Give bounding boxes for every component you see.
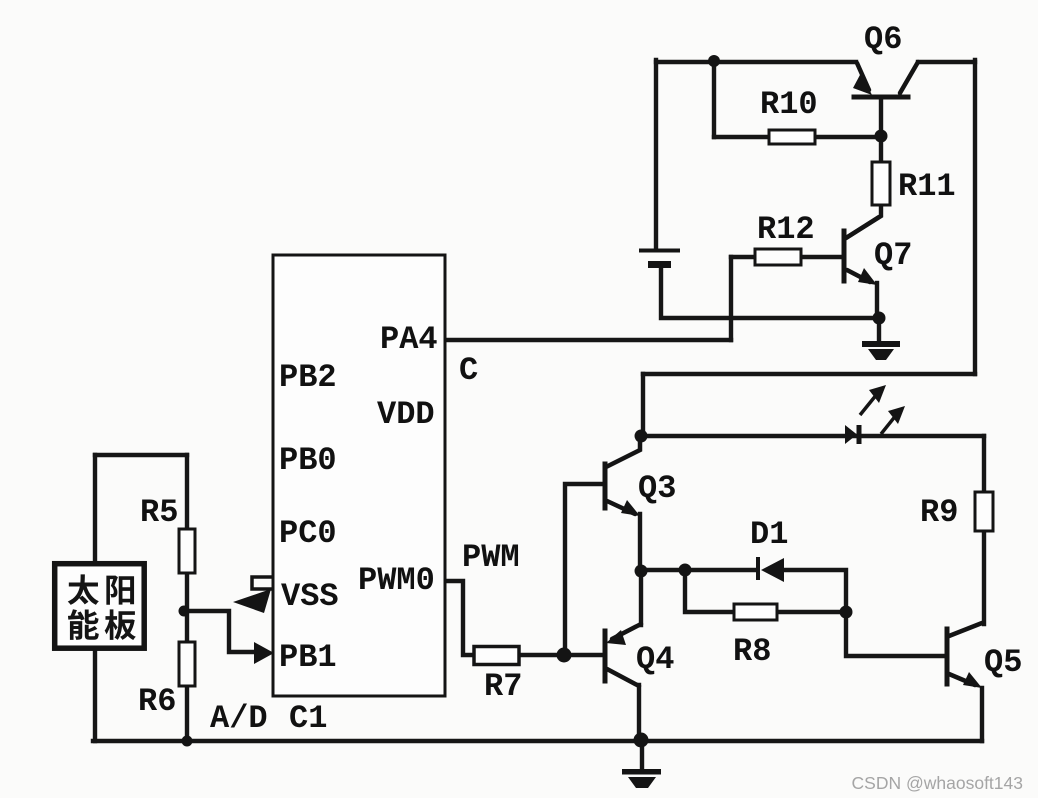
wire R12 base lead to Q7 [801,255,842,259]
wire Q4 emitter trunk [639,571,643,625]
solar panel box [55,564,145,649]
transistor Q3 collector lead [606,436,640,467]
transistor Q5 collector lead [949,623,982,636]
node J10 R5/R6 divider tap [179,606,190,617]
wire Q7 ground stub [877,318,881,342]
diode D1 cathode bar [756,557,760,580]
transistor Q4 emitter arrow (into bar) [606,630,626,645]
resistor R6 [179,642,195,686]
node J3 [635,430,648,443]
resistor R5 [179,529,195,573]
svg-text:PB0: PB0 [279,442,337,479]
svg-text:R6: R6 [138,683,176,720]
node J4 Q7 emitter/ground [873,312,886,325]
svg-text:Q4: Q4 [636,641,674,678]
wire battery negative to ground rail [661,267,879,318]
svg-text:PWM: PWM [462,539,520,576]
wire R8 right lead [777,610,846,614]
transistor Q3 emitter lead [607,501,635,514]
wire Q4 ground stub [640,741,644,769]
svg-text:CSDN @whaosoft143: CSDN @whaosoft143 [852,773,1023,793]
wire R5 top lead [185,455,189,529]
transistor Q7 emitter arrow [858,268,877,285]
wire Q7 emitter drop [875,283,879,318]
wire Q3 base riser [565,484,602,655]
svg-text:PWM0: PWM0 [358,562,435,599]
svg-text:R5: R5 [140,494,178,531]
node J5 R7/Q3/Q4 bases [557,648,572,663]
wire LED row [641,434,984,438]
svg-text:C: C [459,352,478,389]
wire Q5 emitter drop [980,688,984,741]
LED D2 triangle [845,425,857,444]
wire R7 right lead [519,653,602,657]
svg-text:PA4: PA4 [380,321,438,358]
battery B1 plate short [648,261,671,268]
resistor R10 [769,130,815,144]
svg-text:R8: R8 [733,633,771,670]
wire R9 bottom lead [982,531,986,624]
wire solar loop top [95,453,187,457]
transistor Q4 collector lead [607,669,639,686]
transistor Q3 emitter arrow [621,500,640,516]
transistor Q5 base bar [945,629,950,684]
node J11 divider bottom on rail [182,736,193,747]
svg-text:Q6: Q6 [864,21,902,58]
svg-text:R10: R10 [760,86,818,123]
wire Q3 emitter drop [638,514,642,571]
svg-text:R11: R11 [898,168,956,205]
resistor R8 [734,604,777,620]
svg-text:PB2: PB2 [279,359,337,396]
svg-text:R9: R9 [920,494,958,531]
wire node J1 drop to R10 [712,60,716,137]
transistor Q6 collector lead [900,62,918,93]
wire R12 left lead [731,255,755,259]
resistor R7 [474,647,519,665]
ground symbol at Q4 [622,769,661,788]
transistor Q3 base bar [603,464,608,508]
svg-text:D1: D1 [750,516,788,553]
wire R6 top lead [185,611,189,642]
wire battery positive drop [654,60,658,249]
wire R6 bottom lead [185,686,189,741]
wire solar left lower [93,649,97,741]
solar panel char 板 [105,609,136,640]
node J2 [875,130,888,143]
svg-text:Q3: Q3 [638,470,676,507]
A/D arrow into PB1 [254,642,274,664]
svg-text:C1: C1 [289,700,327,737]
solar panel char 能 [68,609,99,640]
wire top rail right [918,60,975,64]
svg-text:PC0: PC0 [279,515,337,552]
wire Q6 base lead [879,99,883,136]
svg-text:PB1: PB1 [279,639,337,676]
wire A/D tap [184,611,254,652]
wire solar left upper [93,455,97,564]
wire bottom ground rail [93,739,982,743]
wire top rail left [656,60,856,64]
wire R9 top lead [982,436,986,492]
transistor Q6 emitter lead [857,63,869,90]
resistor R9 [975,492,993,531]
svg-text:Q5: Q5 [984,644,1022,681]
svg-text:A/D: A/D [210,700,268,737]
wire D1 row left [641,568,757,572]
svg-text:R7: R7 [484,668,522,705]
node J6 Q3-Q4 trunk [635,565,648,578]
wire horizontal into LED trunk [643,372,975,376]
LED light arrow 2 [881,414,897,434]
wire right edge vertical from Q6 collector [973,60,977,374]
VSS arrow symbol [233,589,271,613]
transistor Q7 collector lead [846,217,879,238]
resistor R11 [872,162,890,205]
transistor Q4 base bar [603,631,608,681]
wire R11 bottom lead [846,205,881,238]
svg-text:VSS: VSS [281,578,339,615]
wire PWM0 lead [445,581,474,655]
LED arrow1 head [869,385,886,403]
transistor Q4 emitter lead (PNP, arrow into bar) [612,624,641,639]
node J7 D1/R8 left [679,564,692,577]
node J1 [708,55,720,67]
svg-text:Q7: Q7 [874,237,912,274]
transistor Q6 emitter arrow (PNP) [853,73,872,95]
transistor Q5 emitter arrow [963,672,982,688]
LED arrow2 head [888,406,905,424]
resistor R12 [755,249,801,265]
diode D1 triangle [761,558,784,582]
wire PA4 riser [729,257,733,340]
wire Q4 collector drop [637,685,641,741]
wire D1 row right [784,570,846,612]
transistor Q7 emitter lead [847,270,870,282]
solar panel char 太 [68,574,99,605]
solar panel char 阳 [106,576,134,605]
ground symbol at Q7 [862,341,900,360]
LED light arrow 1 [860,394,877,415]
wire trunk drop to node J3 [641,374,645,436]
wire R11 top lead [879,138,883,162]
transistor Q6 base bar [854,95,908,100]
node J9 Q4 emitter/rail [634,733,649,748]
VSS hook [252,577,272,589]
wire R8 left riser [685,570,734,612]
wire Q5 base feed [846,612,944,656]
svg-text:R12: R12 [757,211,815,248]
transistor Q7 base bar [842,231,847,281]
wire PA4 horizontal [446,338,731,342]
wire R5 bottom lead [185,573,189,611]
transistor Q5 emitter lead [949,674,975,685]
IC U1 body [273,255,445,696]
LED D2 cathode bar [857,425,862,444]
node J8 D1/R8 right [840,606,853,619]
battery B1 plate long [639,249,680,253]
wire R10 right lead [815,135,881,139]
wire R10 left lead [714,135,769,139]
svg-text:VDD: VDD [377,396,435,433]
